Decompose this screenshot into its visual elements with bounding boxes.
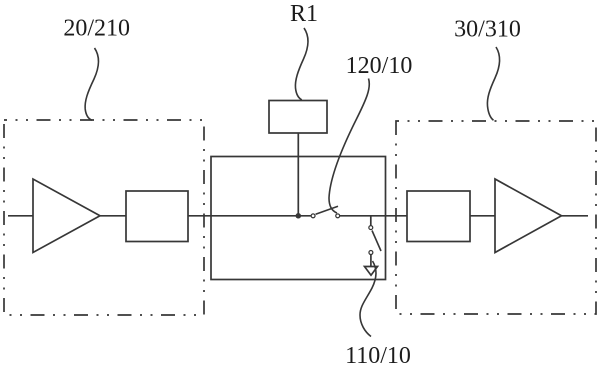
switch unit box 100: [211, 157, 386, 280]
leader line to switch 120/10: [329, 79, 369, 214]
svg-text:R1: R1: [290, 1, 318, 27]
wire: right filter to amplifier: [470, 215, 495, 217]
amplifier (right, block 30/310): [495, 179, 562, 253]
dashed block 30/310 (right): [396, 121, 596, 314]
wire: R1 to node A: [297, 133, 299, 216]
filter block (left): [126, 191, 188, 242]
leader line to block 30/310: [487, 47, 499, 120]
resistor R1 body: [269, 101, 327, 134]
svg-text:110/10: 110/10: [345, 343, 411, 368]
wire: input lead: [8, 215, 33, 217]
wire: switch 120/10 to block 30/310: [340, 215, 407, 217]
switch 110/10 contact top: [369, 226, 373, 230]
ground: [365, 267, 378, 276]
wire: output lead: [562, 215, 589, 217]
svg-text:20/210: 20/210: [63, 16, 130, 42]
switch 110/10 contact bottom: [369, 251, 373, 255]
switch 120/10 blade: [316, 206, 338, 214]
filter block (right): [407, 191, 470, 242]
wire: branch stub to switch 110/10: [370, 216, 372, 226]
wire: switch box left edge to node A: [211, 215, 311, 217]
leader line to switch 110/10: [360, 261, 376, 337]
switch 110/10 blade: [372, 231, 381, 252]
leader line to resistor R1: [295, 28, 307, 100]
switch 120/10 contact left: [311, 214, 315, 218]
svg-text:120/10: 120/10: [346, 53, 413, 79]
svg-text:30/310: 30/310: [454, 17, 521, 43]
leader line to block 20/210: [85, 48, 98, 120]
amplifier (left, block 20/210): [33, 179, 100, 253]
dashed block 20/210 (left): [4, 120, 204, 315]
wire: left filter to switch box: [188, 215, 211, 217]
wire: amplifier to filter (left): [100, 215, 126, 217]
switch 120/10 contact right: [336, 214, 340, 218]
node A (junction dot): [296, 213, 302, 219]
wire: switch 110/10 to ground: [370, 255, 372, 267]
